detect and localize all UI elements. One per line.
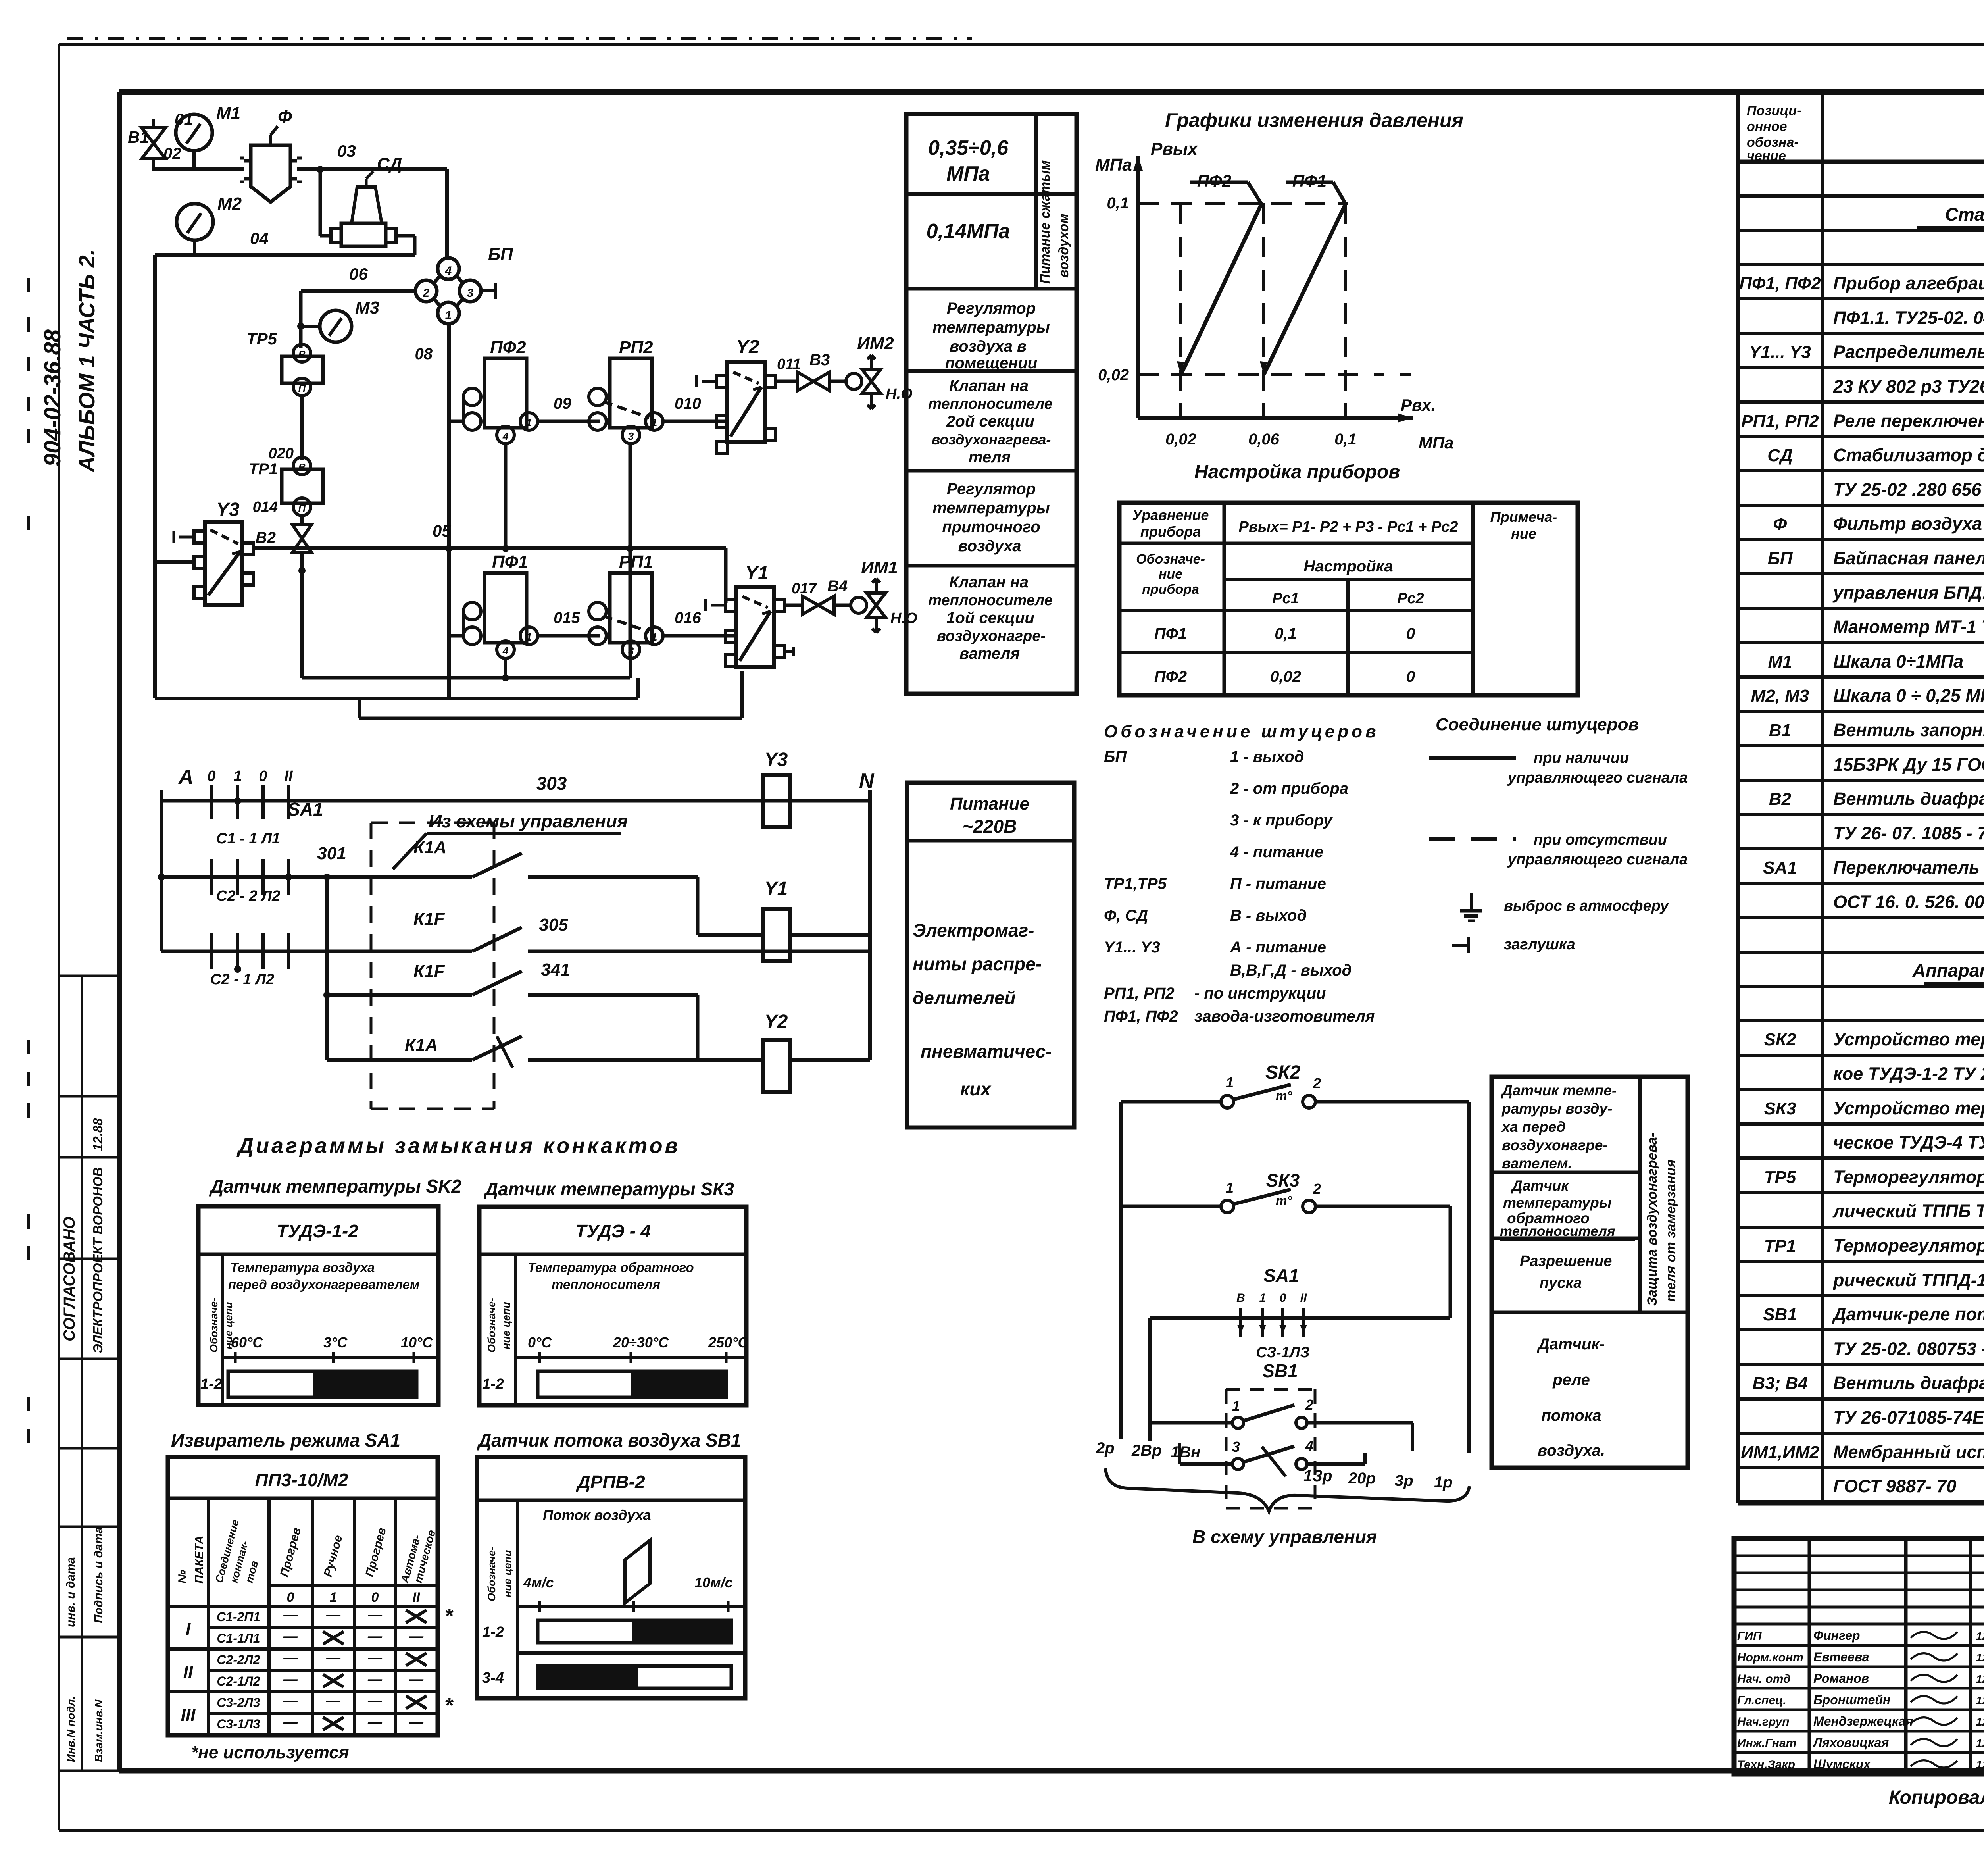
svg-text:Y3: Y3 xyxy=(216,499,240,520)
svg-text:SВ1: SВ1 xyxy=(1763,1305,1797,1324)
svg-text:ГОСТ 9887- 70: ГОСТ 9887- 70 xyxy=(1833,1476,1956,1496)
svg-text:Питание: Питание xyxy=(950,794,1029,814)
wire 09 xyxy=(538,420,600,423)
wire SD out to 04 xyxy=(396,234,415,238)
svg-text:1: 1 xyxy=(652,631,657,643)
svg-text:Y1: Y1 xyxy=(765,878,788,899)
wire 08 from BP down xyxy=(447,323,451,698)
svg-text:Ф: Ф xyxy=(1773,514,1787,534)
svg-text:12.88: 12.88 xyxy=(90,1118,105,1151)
wire 06 xyxy=(301,289,415,293)
svg-text:12.88: 12.88 xyxy=(1976,1759,1984,1771)
svg-text:потока: потока xyxy=(1541,1407,1601,1424)
svg-text:1-2: 1-2 xyxy=(482,1624,504,1641)
svg-text:Датчик температуры SK2: Датчик температуры SK2 xyxy=(209,1176,461,1197)
svg-text:3°С: 3°С xyxy=(323,1334,348,1351)
svg-text:~220В: ~220В xyxy=(963,816,1017,837)
protection circuit left rail xyxy=(1119,1102,1123,1439)
wire 05 xyxy=(254,546,726,550)
svg-text:теплоносителя: теплоносителя xyxy=(1500,1224,1615,1239)
svg-text:301: 301 xyxy=(317,844,346,863)
lower bus wires xyxy=(302,676,506,680)
svg-text:теплоносителя: теплоносителя xyxy=(552,1277,660,1292)
svg-text:ТР1: ТР1 xyxy=(1764,1236,1796,1256)
svg-text:ДРПВ-2: ДРПВ-2 xyxy=(575,1472,645,1492)
bypass panel BP xyxy=(433,276,440,284)
parts table frame xyxy=(1736,92,1740,1503)
svg-text:воздуха.: воздуха. xyxy=(1538,1442,1605,1459)
table TUDE-1-2 xyxy=(198,1206,438,1405)
svg-text:В2: В2 xyxy=(1769,789,1792,809)
svg-text:прибора: прибора xyxy=(1142,582,1199,597)
svg-text:Обозначе-: Обозначе- xyxy=(1136,552,1205,567)
svg-text:—: — xyxy=(283,1649,298,1666)
svg-text:обозна-: обозна- xyxy=(1747,135,1799,150)
svg-text:В4: В4 xyxy=(827,577,848,595)
dashed relay box K1 xyxy=(371,823,494,1109)
wire row 341 xyxy=(323,991,331,999)
vent to atmosphere symbol xyxy=(1470,893,1473,911)
svg-text:Подпись и дата: Подпись и дата xyxy=(92,1527,105,1623)
margin tick marks xyxy=(27,278,30,292)
svg-text:Обозначе-: Обозначе- xyxy=(486,1298,498,1353)
svg-text:С3-1Л3: С3-1Л3 xyxy=(217,1717,260,1731)
svg-text:Нач.груп: Нач.груп xyxy=(1737,1715,1790,1728)
torn dash-dot scan marks top-left xyxy=(67,37,972,40)
svg-text:4 - питание: 4 - питание xyxy=(1230,843,1323,861)
gauge M2 xyxy=(177,204,213,240)
svg-text:Вентиль запорный муфтовый: Вентиль запорный муфтовый xyxy=(1833,720,1984,740)
svg-text:Стабилизатор давления возду: Стабилизатор давления воздуха СДВ-Б xyxy=(1833,445,1984,465)
svg-text:Соединение штуцеров: Соединение штуцеров xyxy=(1436,715,1639,734)
svg-text:В3: В3 xyxy=(809,351,830,369)
svg-text:Ляховицкая: Ляховицкая xyxy=(1813,1736,1889,1750)
svg-text:III: III xyxy=(181,1705,196,1725)
svg-text:Клапан на: Клапан на xyxy=(949,573,1029,591)
svg-text:1Вн: 1Вн xyxy=(1171,1443,1200,1461)
svg-text:БП: БП xyxy=(1768,549,1793,568)
svg-text:04: 04 xyxy=(250,229,269,248)
svg-text:Романов: Романов xyxy=(1813,1671,1869,1686)
svg-text:Бронштейн: Бронштейн xyxy=(1813,1693,1890,1707)
svg-text:лический ТППБ ТУ25-02 (4Ж2.5: лический ТППБ ТУ25-02 (4Ж2.574.025)-84 xyxy=(1832,1201,1984,1221)
svg-text:1: 1 xyxy=(1226,1179,1234,1196)
parts row 3 xyxy=(1738,297,1984,300)
svg-text:выброс в атмосферу: выброс в атмосферу xyxy=(1504,898,1669,914)
svg-text:Рвых= Р1- Р2 + Р3 - Рс1 + Рс2: Рвых= Р1- Р2 + Р3 - Рс1 + Рс2 xyxy=(1239,519,1458,535)
pressure values box xyxy=(906,114,1077,694)
wire 010 xyxy=(663,420,727,423)
svg-text:3: 3 xyxy=(467,287,474,300)
svg-text:Регулятор: Регулятор xyxy=(947,300,1036,317)
title block small grid xyxy=(1808,1539,1811,1774)
svg-text:С1-2П1: С1-2П1 xyxy=(217,1610,260,1624)
sensor description boxes xyxy=(1492,1077,1688,1468)
valve B1 xyxy=(142,128,165,159)
svg-text:реле: реле xyxy=(1552,1371,1590,1389)
svg-text:—: — xyxy=(283,1714,298,1730)
svg-text:2р: 2р xyxy=(1096,1439,1115,1457)
svg-text:Терморегулятор пневматический: Терморегулятор пневматический биметал- xyxy=(1833,1167,1984,1187)
svg-text:пуска: пуска xyxy=(1540,1275,1582,1291)
svg-text:В1: В1 xyxy=(128,128,149,146)
svg-text:ИМ1: ИМ1 xyxy=(861,558,898,577)
svg-text:вателем.: вателем. xyxy=(1502,1155,1572,1172)
svg-text:В: В xyxy=(1236,1291,1245,1305)
wire 03 down to BP xyxy=(445,169,449,258)
svg-text:1: 1 xyxy=(1226,1074,1234,1091)
svg-text:Y2: Y2 xyxy=(736,337,759,358)
svg-text:4: 4 xyxy=(502,645,509,657)
svg-text:ПП3-10/М2: ПП3-10/М2 xyxy=(255,1470,348,1490)
rail N vertical xyxy=(868,790,872,1060)
svg-text:03: 03 xyxy=(337,142,356,160)
svg-text:Обозначе-: Обозначе- xyxy=(486,1547,498,1601)
svg-text:ПФ2: ПФ2 xyxy=(490,338,526,357)
svg-text:Обозначение штуцеров: Обозначение штуцеров xyxy=(1104,722,1379,741)
svg-text:06: 06 xyxy=(349,265,368,283)
svg-text:—: — xyxy=(326,1607,341,1623)
svg-text:С3-2Л3: С3-2Л3 xyxy=(217,1695,260,1710)
svg-text:0: 0 xyxy=(1280,1291,1286,1305)
svg-text:017: 017 xyxy=(792,580,817,597)
svg-text:температуры: температуры xyxy=(932,499,1050,517)
svg-text:ТУДЭ - 4: ТУДЭ - 4 xyxy=(575,1221,651,1241)
svg-text:Настройка: Настройка xyxy=(1303,558,1393,575)
pressure stabilizer SD xyxy=(352,187,382,223)
svg-text:ТР1: ТР1 xyxy=(249,460,278,478)
SA1 ticks row 305 xyxy=(210,933,213,969)
svg-text:МПа: МПа xyxy=(1419,433,1454,452)
wire A to Y3 xyxy=(155,560,194,564)
svg-text:1: 1 xyxy=(1259,1291,1266,1305)
svg-text:приточного: приточного xyxy=(942,518,1040,536)
svg-text:К1F: К1F xyxy=(413,909,445,929)
svg-text:БП: БП xyxy=(488,244,513,264)
svg-text:Y1... Y3: Y1... Y3 xyxy=(1749,342,1811,362)
wire 03 xyxy=(297,167,447,171)
svg-text:ПФ1, ПФ2: ПФ1, ПФ2 xyxy=(1739,274,1821,293)
svg-text:Нач. отд: Нач. отд xyxy=(1737,1672,1791,1686)
table TUDE-4 xyxy=(479,1207,746,1405)
svg-text:010: 010 xyxy=(675,395,701,412)
svg-text:В: В xyxy=(298,461,306,473)
SK3 bar xyxy=(538,1371,726,1397)
title block frame xyxy=(1734,1539,1984,1774)
svg-text:—: — xyxy=(326,1692,341,1709)
svg-text:Гл.спец.: Гл.спец. xyxy=(1737,1694,1786,1707)
svg-text:теплоносителе: теплоносителе xyxy=(928,592,1053,609)
svg-text:РП1: РП1 xyxy=(619,552,653,571)
svg-text:ПФ2: ПФ2 xyxy=(1154,668,1187,685)
bus rail R1 xyxy=(155,697,638,700)
svg-text:Мембранный исполнительный ме: Мембранный исполнительный механизм xyxy=(1833,1442,1984,1462)
svg-text:т°: т° xyxy=(1276,1193,1292,1208)
svg-text:20р: 20р xyxy=(1348,1470,1376,1487)
svg-text:SВ1: SВ1 xyxy=(1262,1360,1298,1381)
svg-text:1: 1 xyxy=(233,768,242,785)
parts row 1 xyxy=(1738,229,1984,232)
svg-text:Диаграммы замыкания конкакто: Диаграммы замыкания конкактов xyxy=(236,1134,680,1158)
svg-text:С1 - 1 Л1: С1 - 1 Л1 xyxy=(216,830,280,847)
bus rail R2 xyxy=(359,717,742,720)
svg-text:1ой секции: 1ой секции xyxy=(946,609,1034,627)
svg-text:прибора: прибора xyxy=(1140,523,1201,540)
svg-text:В2: В2 xyxy=(256,529,276,546)
rail A vertical xyxy=(160,790,163,951)
svg-text:К1А: К1А xyxy=(405,1035,438,1055)
underbrace to control circuit xyxy=(1105,1468,1469,1511)
svg-text:пневматичес-: пневматичес- xyxy=(921,1041,1052,1062)
svg-text:при отсутствии: при отсутствии xyxy=(1534,831,1667,848)
svg-text:Байпасная панель дистанцион: Байпасная панель дистанционного xyxy=(1833,548,1984,568)
svg-text:—: — xyxy=(367,1714,383,1730)
svg-text:воздухонагре-: воздухонагре- xyxy=(937,628,1046,645)
svg-text:ПФ1, ПФ2: ПФ1, ПФ2 xyxy=(1104,1008,1178,1025)
svg-text:К1F: К1F xyxy=(413,962,445,981)
svg-text:SК3: SК3 xyxy=(1266,1170,1300,1191)
svg-text:ТУ 25-02 .280 656 - 80: ТУ 25-02 .280 656 - 80 xyxy=(1833,479,1984,500)
svg-text:12.88: 12.88 xyxy=(1976,1737,1984,1749)
svg-text:Разрешение: Разрешение xyxy=(1520,1253,1612,1270)
svg-text:Рс2: Рс2 xyxy=(1397,590,1424,607)
svg-text:- по инструкции: - по инструкции xyxy=(1194,985,1326,1002)
svg-text:ИМ1,ИМ2: ИМ1,ИМ2 xyxy=(1741,1443,1819,1462)
svg-text:Терморегулятор пневматический: Терморегулятор пневматический дилатомет- xyxy=(1833,1235,1984,1256)
svg-text:05: 05 xyxy=(433,521,451,540)
svg-text:температуры: температуры xyxy=(1503,1195,1611,1211)
svg-text:перед воздухонагревателем: перед воздухонагревателем xyxy=(228,1277,419,1292)
svg-text:теля: теля xyxy=(969,448,1011,466)
svg-text:Примеча-: Примеча- xyxy=(1490,509,1557,525)
svg-text:12.88: 12.88 xyxy=(1976,1716,1984,1728)
wire SA1 row xyxy=(1150,1316,1450,1320)
protection circuit right rail xyxy=(1467,1102,1471,1453)
svg-text:Статив: Статив xyxy=(1945,204,1984,225)
svg-text:—: — xyxy=(283,1692,298,1709)
svg-text:Техн.Закр: Техн.Закр xyxy=(1737,1758,1795,1771)
svg-text:Аппаратура по месту: Аппаратура по месту xyxy=(1912,960,1984,981)
svg-text:—: — xyxy=(367,1607,383,1623)
svg-text:Ф: Ф xyxy=(278,106,292,127)
plug at BP port 3 xyxy=(481,289,495,292)
svg-text:—: — xyxy=(326,1649,341,1666)
svg-text:1-2: 1-2 xyxy=(482,1376,504,1393)
svg-text:ниты распре-: ниты распре- xyxy=(913,954,1042,974)
wire 015 xyxy=(538,634,600,638)
svg-text:ние цепи: ние цепи xyxy=(502,1550,513,1597)
svg-text:при наличии: при наличии xyxy=(1534,750,1629,766)
svg-text:2: 2 xyxy=(1305,1397,1313,1413)
svg-text:Датчик: Датчик xyxy=(1511,1178,1569,1194)
svg-text:Питание сжатым: Питание сжатым xyxy=(1038,160,1053,284)
svg-text:Электромаг-: Электромаг- xyxy=(913,920,1034,941)
svg-text:теля от замерзания: теля от замерзания xyxy=(1663,1160,1678,1302)
svg-text:ГИП: ГИП xyxy=(1737,1630,1762,1643)
gauge M3 xyxy=(320,310,352,342)
svg-text:1: 1 xyxy=(526,417,532,429)
svg-text:—: — xyxy=(409,1714,424,1730)
svg-text:—: — xyxy=(409,1628,424,1644)
svg-text:—: — xyxy=(367,1649,383,1666)
SB1 bar 3-4 xyxy=(538,1666,731,1688)
svg-text:температуры: температуры xyxy=(932,319,1050,336)
sheet outer border xyxy=(59,43,1984,46)
svg-text:Фингер: Фингер xyxy=(1813,1628,1860,1643)
svg-text:-60°С: -60°С xyxy=(226,1334,263,1351)
svg-text:С1-1Л1: С1-1Л1 xyxy=(217,1631,260,1645)
svg-text:А: А xyxy=(178,766,194,789)
wire 017 xyxy=(785,604,802,607)
svg-text:4: 4 xyxy=(445,264,452,277)
svg-text:II: II xyxy=(1300,1291,1307,1305)
svg-text:3-4: 3-4 xyxy=(482,1670,504,1686)
svg-text:20÷30°С: 20÷30°С xyxy=(613,1334,669,1351)
svg-text:воздуха в: воздуха в xyxy=(950,338,1027,355)
wire 04 xyxy=(155,253,415,257)
svg-text:2: 2 xyxy=(1313,1181,1321,1197)
svg-text:Фильтр воздуха ФВ-Б-02 ТУ 25: Фильтр воздуха ФВ-Б-02 ТУ 25-02.280.666-… xyxy=(1833,514,1984,534)
svg-text:Манометр МТ-1 ТУ 25-02. 72: Манометр МТ-1 ТУ 25-02. 72 - 75 xyxy=(1833,617,1984,637)
svg-text:1Зр: 1Зр xyxy=(1303,1467,1332,1485)
SB1 bar 1-2 xyxy=(538,1620,731,1643)
svg-text:М3: М3 xyxy=(355,298,379,317)
svg-text:управляющего сигнала: управляющего сигнала xyxy=(1507,851,1688,868)
svg-text:Уравнение: Уравнение xyxy=(1132,507,1209,523)
svg-text:Регулятор: Регулятор xyxy=(947,480,1036,498)
svg-text:—: — xyxy=(367,1628,383,1644)
svg-text:Вентиль диафрагмовый ВПД-4: Вентиль диафрагмовый ВПД-4 Ду-4 xyxy=(1833,1373,1984,1393)
svg-text:М2: М2 xyxy=(217,194,242,214)
wire B1 to filter xyxy=(154,167,244,171)
svg-text:П - питание: П - питание xyxy=(1230,875,1326,893)
svg-text:0: 0 xyxy=(371,1590,379,1605)
svg-text:управления БПДУ-А ТУ 25-04.: управления БПДУ-А ТУ 25-04.2718 - 75 xyxy=(1832,583,1984,603)
svg-text:SК2: SК2 xyxy=(1265,1062,1301,1083)
svg-text:ПФ1: ПФ1 xyxy=(492,552,528,571)
svg-text:10м/с: 10м/с xyxy=(694,1574,733,1591)
svg-text:П: П xyxy=(298,502,306,514)
svg-text:Прибор алгебраического сумми: Прибор алгебраического суммирования xyxy=(1833,273,1984,293)
svg-text:ратуры возду-: ратуры возду- xyxy=(1501,1101,1612,1117)
filter F body xyxy=(251,145,290,202)
svg-text:РП1, РП2: РП1, РП2 xyxy=(1104,985,1175,1002)
svg-text:12.88: 12.88 xyxy=(1976,1673,1984,1685)
valve B2 xyxy=(292,525,311,552)
svg-text:0,1: 0,1 xyxy=(1107,194,1129,212)
svg-text:1: 1 xyxy=(526,631,532,643)
svg-text:016: 016 xyxy=(675,609,701,627)
svg-text:Y1: Y1 xyxy=(745,563,769,584)
svg-text:*не используется: *не используется xyxy=(191,1743,349,1762)
svg-text:0: 0 xyxy=(259,768,267,785)
wire row 305 xyxy=(161,950,401,953)
svg-text:2 - от прибора: 2 - от прибора xyxy=(1230,780,1348,797)
svg-text:ПАКЕТА: ПАКЕТА xyxy=(193,1535,206,1584)
svg-text:15Б3РК Ду 15 ГОСТ 9086 -: 15Б3РК Ду 15 ГОСТ 9086 - 74 xyxy=(1833,754,1984,775)
svg-text:ТУ 25-02. 080753 - 78: ТУ 25-02. 080753 - 78 xyxy=(1833,1339,1984,1359)
svg-text:Переключатель пакетный ПП3-1: Переключатель пакетный ПП3-10/Н2У4;5Б xyxy=(1833,857,1984,877)
svg-text:Позици-: Позици- xyxy=(1747,103,1801,118)
svg-text:23 КУ 802 р3 ТУ26- 07. 034: 23 КУ 802 р3 ТУ26- 07. 034 - 76 xyxy=(1833,376,1984,396)
svg-text:В1: В1 xyxy=(1769,721,1791,740)
svg-text:М1: М1 xyxy=(216,104,240,123)
svg-text:Графики изменения давления: Графики изменения давления xyxy=(1165,109,1463,131)
svg-text:ТУДЭ-1-2: ТУДЭ-1-2 xyxy=(277,1221,358,1241)
svg-text:*: * xyxy=(444,1604,454,1628)
svg-text:ких: ких xyxy=(960,1079,992,1099)
svg-text:II: II xyxy=(183,1662,193,1682)
svg-text:Евтеева: Евтеева xyxy=(1813,1650,1869,1664)
svg-text:1р: 1р xyxy=(1434,1474,1453,1491)
SA1 ticks row 303 xyxy=(210,785,213,819)
svg-text:Мендзержецкая: Мендзержецкая xyxy=(1813,1714,1913,1728)
svg-text:SA1: SA1 xyxy=(1763,858,1797,877)
wire TP5 to TP1 020 xyxy=(300,396,304,460)
svg-text:904-02-36.88: 904-02-36.88 xyxy=(40,329,65,466)
svg-text:2: 2 xyxy=(423,287,430,300)
svg-text:1: 1 xyxy=(652,417,657,429)
svg-text:ИМ2: ИМ2 xyxy=(857,334,894,353)
svg-text:ТР1,ТР5: ТР1,ТР5 xyxy=(1104,875,1167,893)
svg-text:Датчик темпе-: Датчик темпе- xyxy=(1501,1082,1617,1099)
svg-text:В,В,Г,Д - выход: В,В,Г,Д - выход xyxy=(1230,962,1352,979)
svg-text:ха перед: ха перед xyxy=(1501,1119,1566,1135)
svg-text:II: II xyxy=(413,1590,421,1605)
svg-text:А - питание: А - питание xyxy=(1230,939,1326,956)
parts table header xyxy=(1738,160,1984,164)
svg-text:1: 1 xyxy=(1232,1398,1240,1414)
svg-text:Защита воздухонагрева-: Защита воздухонагрева- xyxy=(1645,1133,1660,1306)
svg-text:ческое ТУДЭ-4 ТУ 25-02. 281: ческое ТУДЭ-4 ТУ 25-02. 281074-78 xyxy=(1833,1132,1984,1153)
power 220V box xyxy=(907,783,1074,1128)
svg-text:—: — xyxy=(367,1692,383,1709)
svg-text:0,14МПа: 0,14МПа xyxy=(927,220,1010,243)
wire 016 xyxy=(663,634,736,638)
svg-text:Датчик потока воздуха SВ1: Датчик потока воздуха SВ1 xyxy=(477,1430,741,1451)
svg-text:Датчик температуры SК3: Датчик температуры SК3 xyxy=(483,1179,734,1199)
svg-text:Поток воздуха: Поток воздуха xyxy=(543,1507,651,1523)
svg-text:РП1, РП2: РП1, РП2 xyxy=(1741,412,1819,431)
svg-text:Рвых: Рвых xyxy=(1151,139,1198,159)
table PP3-10/M2 xyxy=(168,1457,438,1736)
svg-text:Инж.Гнат: Инж.Гнат xyxy=(1737,1737,1796,1750)
svg-text:Устройство терморегулирующее: Устройство терморегулирующее электри- xyxy=(1833,1098,1984,1118)
regulator description cells xyxy=(906,369,1077,373)
svg-text:Извиратель режима SA1: Извиратель режима SA1 xyxy=(171,1430,400,1451)
svg-text:1: 1 xyxy=(330,1590,337,1605)
svg-text:СОГЛАСОВАНО: СОГЛАСОВАНО xyxy=(61,1216,78,1341)
svg-text:помещении: помещении xyxy=(945,354,1037,372)
svg-text:2: 2 xyxy=(1313,1075,1321,1091)
svg-text:ТУ 26-071085-74Е: ТУ 26-071085-74Е xyxy=(1833,1407,1984,1428)
svg-text:Ф, СД: Ф, СД xyxy=(1104,907,1148,924)
SK2 bar xyxy=(228,1371,417,1397)
svg-text:т°: т° xyxy=(1276,1089,1292,1103)
svg-text:0,02: 0,02 xyxy=(1098,366,1129,384)
svg-text:SК2: SК2 xyxy=(1764,1030,1796,1049)
svg-text:ние: ние xyxy=(1511,525,1536,542)
svg-text:Датчик-реле потока воздуха: Датчик-реле потока воздуха ДРПВ-2 xyxy=(1832,1304,1984,1324)
svg-text:09: 09 xyxy=(554,395,571,412)
svg-text:SК3: SК3 xyxy=(1764,1099,1796,1118)
svg-text:Шкала 0 ÷ 0,25 МПа: Шкала 0 ÷ 0,25 МПа xyxy=(1833,685,1984,706)
svg-text:заглушка: заглушка xyxy=(1504,936,1575,953)
svg-text:08: 08 xyxy=(415,345,433,363)
left margin stamp column xyxy=(59,975,119,977)
svg-text:Вентиль диафрагмовый ВПД-4: Вентиль диафрагмовый ВПД-4 Ду 4 xyxy=(1833,789,1984,809)
svg-text:Шумских: Шумских xyxy=(1813,1757,1871,1771)
